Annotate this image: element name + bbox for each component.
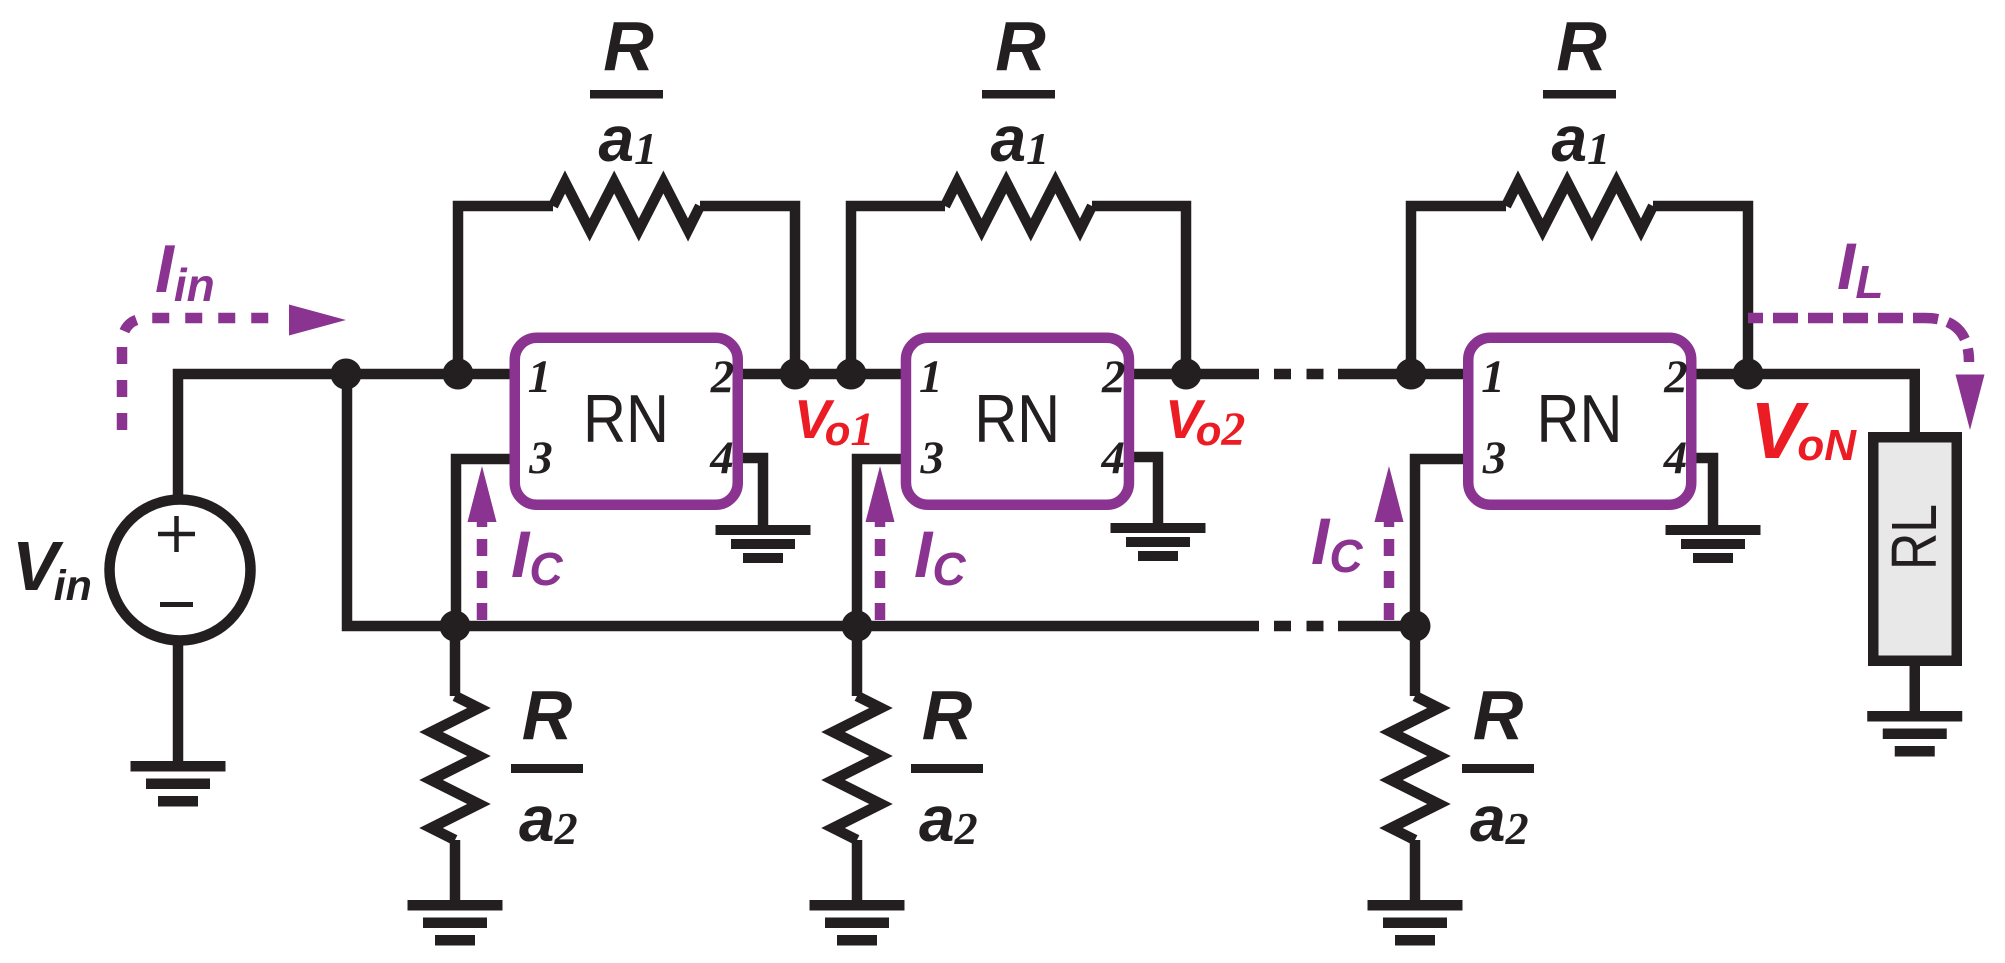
- svg-text:1: 1: [919, 351, 943, 403]
- svg-text:R: R: [1556, 7, 1607, 85]
- junction loop3 right (node VoN): [1733, 359, 1764, 390]
- svg-text:R: R: [603, 7, 654, 85]
- current arrow IC dashed line (stage 1): [477, 522, 488, 626]
- wire: loop1 left riser: [458, 206, 553, 374]
- wire: loop2 right riser: [1092, 206, 1186, 374]
- resistor R/a1 (stage1) zigzag: [553, 182, 700, 230]
- svg-text:RN: RN: [974, 381, 1060, 457]
- svg-text:2: 2: [1663, 351, 1688, 403]
- ground (RN2 pin4): [1111, 523, 1206, 561]
- resistor R/a2 (stage1) zigzag: [431, 696, 479, 840]
- current arrow IL head: [1956, 375, 1985, 431]
- junction bottom rail stage3: [1400, 611, 1431, 642]
- wire: stage1 node to R/a2: [450, 626, 461, 696]
- svg-text:RN: RN: [1537, 381, 1623, 457]
- wire: top rail RN1 pin2 to RN2 pin1: [738, 369, 909, 380]
- junction bottom rail stage1: [440, 611, 471, 642]
- svg-text:2: 2: [1101, 351, 1126, 403]
- value label R/a1 (stage 2): [982, 7, 1055, 175]
- ground (R/a2 stage3): [1368, 900, 1463, 946]
- ground (R/a2 stage1): [408, 900, 503, 946]
- ground (RN1 pin4): [716, 525, 811, 563]
- svg-text:2: 2: [710, 351, 735, 403]
- svg-text:RN: RN: [583, 381, 669, 457]
- resistor R/a1 (stage2) zigzag: [945, 182, 1092, 230]
- wire: R/a2 stage2 to ground: [852, 840, 863, 900]
- wire: Vin up to top rail, rail to RN1 pin1: [178, 374, 517, 500]
- resistor R/a1 (stage3) zigzag: [1506, 182, 1653, 230]
- wire: R/a2 stage3 to ground: [1410, 840, 1421, 900]
- current arrow IC head (stage 3): [1375, 466, 1404, 522]
- wire: top rail RN2 pin2 toward break: [1129, 369, 1259, 380]
- current arrow IC head (stage 2): [866, 466, 895, 522]
- node A junction (input node): [331, 359, 362, 390]
- svg-text:R: R: [995, 7, 1046, 85]
- junction loop2 right (node Vo2): [1171, 359, 1202, 390]
- wire: RN1 pin3 to bottom rail: [456, 459, 516, 626]
- junction loop2 left: [836, 359, 867, 390]
- current arrow Iin dashed path: [122, 318, 283, 430]
- current arrow IC dashed line (stage 2): [875, 522, 886, 626]
- wire: Vin to ground: [173, 641, 184, 761]
- junction loop1 left / RN1 pin1 node: [443, 359, 474, 390]
- resistor RL (load): [1873, 437, 1957, 661]
- wire: stage2 node to R/a2: [852, 626, 863, 696]
- svg-text:3: 3: [528, 432, 553, 484]
- wire: node A drop + bottom rail left section: [347, 374, 1259, 626]
- junction loop1 right (node Vo1): [780, 359, 811, 390]
- wire: loop2 left riser: [851, 206, 945, 374]
- ground (RL): [1867, 711, 1962, 757]
- svg-text:R: R: [1473, 676, 1524, 754]
- wire: bottom rail break to stage3 node: [1338, 621, 1415, 632]
- svg-text:3: 3: [1482, 432, 1507, 484]
- junction loop3 left: [1396, 359, 1427, 390]
- wire: bottom rail break dashes: [1274, 621, 1324, 632]
- op-amp block RN (stage 1): [515, 338, 738, 505]
- wire: loop3 left riser: [1411, 206, 1506, 374]
- op-amp block RN (stage 3): [1468, 338, 1691, 505]
- current arrow IC dashed line (stage 3): [1384, 522, 1395, 626]
- wire: RN2 pin4 to ground: [1128, 457, 1158, 523]
- value label R/a1 (stage 3): [1543, 7, 1616, 175]
- current arrow IC head (stage 1): [468, 466, 497, 522]
- wire: RL to ground: [1910, 666, 1921, 711]
- svg-text:1: 1: [528, 351, 552, 403]
- wire: top rail break dashes: [1274, 369, 1324, 380]
- ground (R/a2 stage2): [810, 900, 905, 946]
- resistor R/a2 (stage3) zigzag: [1391, 696, 1439, 840]
- wire: RN3 pin3 to bottom rail: [1415, 459, 1470, 626]
- op-amp block RN (stage 2): [906, 338, 1129, 505]
- ground (RN3 pin4): [1666, 525, 1761, 563]
- wire: top rail break to RN3 pin1: [1338, 369, 1471, 380]
- wire: stage3 node to R/a2: [1410, 626, 1421, 696]
- svg-text:4: 4: [1100, 432, 1125, 484]
- voltage source Vin symbol: [110, 500, 251, 641]
- current arrow Iin head: [289, 305, 346, 336]
- svg-text:R: R: [522, 676, 573, 754]
- current arrow IL dashed path: [1748, 318, 1969, 362]
- value label R/a2 (stage 2): [911, 676, 983, 855]
- wire: RN2 pin3 to bottom rail: [857, 459, 907, 626]
- ground (Vin): [131, 761, 226, 807]
- wire: loop1 right riser: [700, 206, 795, 374]
- value label R/a2 (stage 3): [1462, 676, 1534, 855]
- wire: top rail RN3 pin2 to RL: [1691, 374, 1915, 437]
- svg-text:R: R: [922, 676, 973, 754]
- wire: loop3 right riser: [1653, 206, 1748, 374]
- wire: RN3 pin4 to ground: [1690, 458, 1713, 525]
- svg-text:3: 3: [919, 432, 944, 484]
- value label R/a2 (stage 1): [511, 676, 583, 855]
- wire: R/a2 stage1 to ground: [450, 840, 461, 900]
- svg-text:4: 4: [709, 432, 734, 484]
- value label R/a1 (stage 1): [590, 7, 663, 175]
- svg-text:4: 4: [1663, 432, 1688, 484]
- junction bottom rail stage2: [842, 611, 873, 642]
- svg-text:RL: RL: [1878, 504, 1950, 570]
- wire: RN1 pin4 to ground: [737, 458, 763, 525]
- resistor R/a2 (stage2) zigzag: [833, 696, 881, 840]
- svg-text:1: 1: [1481, 351, 1505, 403]
